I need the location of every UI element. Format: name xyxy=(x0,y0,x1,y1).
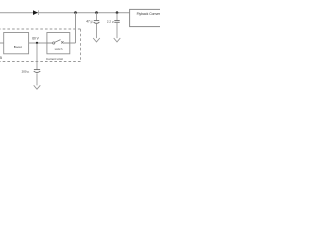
capacitor C3 200u polarized xyxy=(34,69,40,71)
diode D1 arrow on top rail xyxy=(33,10,38,15)
label 47u xyxy=(86,19,92,23)
svg-text:2.2 µ: 2.2 µ xyxy=(107,19,114,23)
label 60 V xyxy=(32,36,39,40)
dashed subsystem boundary right xyxy=(80,29,82,62)
node 60V junction xyxy=(36,42,38,44)
switch symbol right stub xyxy=(64,42,70,44)
dashed subsystem boundary top xyxy=(0,28,81,30)
svg-text:200 µ: 200 µ xyxy=(22,69,30,73)
wire C1 to ground xyxy=(96,24,98,38)
wire C2 to ground xyxy=(116,22,118,38)
wire switch to riser xyxy=(70,42,76,44)
wire input from left edge xyxy=(0,42,7,44)
capacitor C1 47u polarized xyxy=(94,20,99,22)
label Current Limit xyxy=(46,57,63,61)
svg-text:Current Limit: Current Limit xyxy=(46,57,63,61)
wire riser 60V node to bulk cap xyxy=(36,43,38,69)
dashed subsystem boundary bottom xyxy=(0,61,81,63)
label 200u xyxy=(22,69,30,73)
svg-text:60 V: 60 V xyxy=(32,36,39,40)
capacitor C2 2.2u xyxy=(114,20,119,22)
switch symbol left stub xyxy=(47,42,53,44)
boost converter block U1 xyxy=(4,33,29,54)
node junction capacitor C2 top xyxy=(116,11,119,14)
svg-text:Flyback Converter: Flyback Converter xyxy=(137,12,160,16)
label Boost xyxy=(14,45,22,49)
diode D1 cathode bar xyxy=(38,10,40,15)
wire C1 to rail xyxy=(96,13,98,21)
label switch xyxy=(55,47,63,51)
switch symbol lever xyxy=(55,40,61,43)
switch block S1 xyxy=(47,33,70,54)
svg-text:Boost: Boost xyxy=(14,45,22,49)
ground arrow under C1 xyxy=(93,38,100,42)
label USB (clipped at left edge) xyxy=(0,56,2,60)
wire boost to switch xyxy=(29,42,47,44)
label 2.2u xyxy=(107,19,114,23)
label Flyback Converter xyxy=(137,12,165,16)
node junction over switch output xyxy=(74,11,77,14)
wire riser from top rail to switch output xyxy=(75,13,77,43)
wire C2 to rail xyxy=(116,13,118,21)
wire C3 to ground xyxy=(36,73,38,85)
ground arrow under C2 xyxy=(114,38,121,42)
svg-text:47 µ: 47 µ xyxy=(86,19,92,23)
switch symbol contact x xyxy=(61,41,63,43)
flyback converter block U3 xyxy=(130,9,171,26)
wire top rail xyxy=(0,12,130,14)
ground arrow under C3 xyxy=(34,85,41,89)
switch symbol pole circle xyxy=(53,42,55,44)
svg-text:switch: switch xyxy=(55,47,63,51)
node junction capacitor C1 top xyxy=(95,11,98,14)
